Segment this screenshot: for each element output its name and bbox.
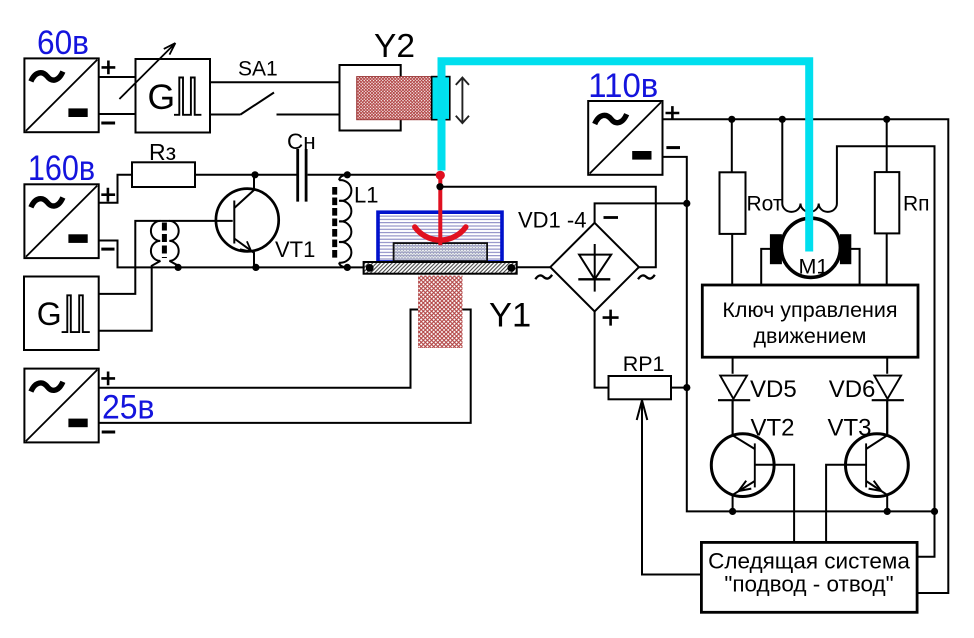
svg-text:Следящая система: Следящая система [708,549,910,574]
svg-text:VD6: VD6 [829,376,876,403]
svg-text:VD1 -4: VD1 -4 [518,207,586,232]
svg-text:Rп: Rп [903,193,930,216]
svg-text:Rот: Rот [747,193,783,216]
svg-text:Ключ управления: Ключ управления [722,298,897,322]
svg-text:160в: 160в [28,149,95,188]
svg-text:G: G [37,296,62,332]
svg-text:VT1: VT1 [275,237,315,262]
svg-text:Сн: Сн [287,129,316,154]
svg-text:движением: движением [754,324,867,348]
svg-text:Y2: Y2 [374,28,415,65]
svg-text:M1: M1 [799,255,829,279]
svg-text:Y1: Y1 [489,297,531,335]
svg-text:RP1: RP1 [623,352,665,376]
svg-text:25в: 25в [102,388,155,426]
svg-text:60в: 60в [37,24,89,62]
svg-text:L1: L1 [354,182,378,207]
svg-text:SA1: SA1 [238,57,278,80]
svg-text:VT3: VT3 [828,415,872,442]
svg-text:110в: 110в [588,67,658,105]
svg-text:"подвод - отвод": "подвод - отвод" [724,572,893,597]
svg-text:G: G [148,77,176,117]
svg-text:VT2: VT2 [751,415,795,442]
svg-text:Rз: Rз [149,139,176,165]
svg-text:VD5: VD5 [750,376,797,403]
